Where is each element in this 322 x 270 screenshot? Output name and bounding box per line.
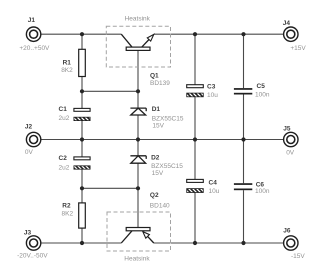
svg-text:BZX55C15: BZX55C15 <box>151 163 183 170</box>
wire top rail to C3 <box>194 34 196 84</box>
svg-text:15V: 15V <box>152 170 164 177</box>
wire node to C1 <box>81 91 83 108</box>
wire Q2 base <box>137 188 139 227</box>
svg-text:-15V: -15V <box>291 253 305 260</box>
svg-text:D1: D1 <box>152 106 161 113</box>
wire Q1 base <box>137 50 139 91</box>
svg-text:+15V: +15V <box>290 45 306 52</box>
label D1 value BZX55C15 15V <box>152 116 184 130</box>
svg-text:8K2: 8K2 <box>62 211 74 218</box>
svg-text:-20V..-50V: -20V..-50V <box>17 253 48 260</box>
wire C2 to node <box>81 169 83 188</box>
svg-text:C4: C4 <box>209 180 218 187</box>
capacitor C3 <box>187 84 216 97</box>
connector J1 <box>26 17 40 41</box>
wire R1 to node <box>81 77 83 92</box>
heatsink box bottom <box>107 212 171 262</box>
svg-text:J1: J1 <box>28 17 36 24</box>
wire Q1 emitter to J4 <box>154 33 284 35</box>
svg-text:J3: J3 <box>24 230 32 237</box>
svg-text:100n: 100n <box>255 92 270 99</box>
label D2 value BZX55C15 15V <box>151 163 183 177</box>
wire C5 to 0V rail <box>243 95 245 140</box>
wire R1 bottom to Q1 base node <box>82 90 138 92</box>
svg-text:Heatsink: Heatsink <box>124 255 150 262</box>
junction bottom rail C6 <box>241 241 245 245</box>
svg-text:R1: R1 <box>63 59 72 66</box>
wire 0V rail to C6 <box>243 140 245 184</box>
wire 0V rail to D2 cathode <box>137 140 139 156</box>
svg-text:J6: J6 <box>283 227 291 234</box>
wire top rail to C5 <box>243 34 245 88</box>
svg-text:0V: 0V <box>25 149 34 156</box>
svg-text:10u: 10u <box>207 92 218 99</box>
wire 0V rail to C4 <box>194 140 196 180</box>
wire C6 to bottom rail <box>243 190 245 243</box>
capacitor C1 <box>59 106 91 121</box>
connector J5 <box>283 126 298 147</box>
capacitor C2 <box>59 155 91 169</box>
wire C3 to 0V rail <box>194 97 196 140</box>
zener diode D1 <box>130 106 160 115</box>
junction C2 R2 node <box>80 186 84 190</box>
svg-text:D2: D2 <box>151 155 160 162</box>
svg-text:J2: J2 <box>25 123 33 130</box>
svg-text:2u2: 2u2 <box>59 164 70 171</box>
heatsink box top <box>106 15 170 67</box>
wire J3 to Q2 collector <box>41 242 122 244</box>
svg-text:BD140: BD140 <box>150 202 170 209</box>
svg-text:+20..+50V: +20..+50V <box>19 45 50 52</box>
svg-text:C2: C2 <box>59 155 68 162</box>
junction Q1 base D1 node <box>136 89 140 93</box>
svg-text:15V: 15V <box>152 123 164 130</box>
capacitor C6 <box>234 182 264 191</box>
svg-text:100n: 100n <box>255 188 270 195</box>
svg-text:Heatsink: Heatsink <box>125 15 151 22</box>
svg-text:R2: R2 <box>62 203 71 210</box>
resistor R1 <box>63 49 86 76</box>
wire R2 to bottom rail <box>81 228 83 243</box>
svg-text:0V: 0V <box>286 150 295 157</box>
wire node to R2 <box>81 188 83 203</box>
transistor Q1 <box>121 34 159 79</box>
wire J1 to Q1 collector <box>41 33 122 35</box>
zener diode D2 <box>130 155 159 164</box>
junction 0V rail C3 C4 <box>193 137 197 141</box>
svg-text:10u: 10u <box>209 188 220 195</box>
junction 0V rail C1 C2 <box>80 137 84 141</box>
junction bottom rail C4 <box>193 241 197 245</box>
wire 0V rail J2 to J5 <box>41 139 284 141</box>
svg-text:C5: C5 <box>257 83 266 90</box>
junction top rail C3 <box>193 32 197 36</box>
resistor R2 <box>62 203 85 228</box>
svg-text:BD139: BD139 <box>150 80 170 87</box>
wire R2 top to Q2 base node <box>82 187 138 189</box>
wire D1 anode to 0V rail <box>137 115 139 140</box>
connector J4 <box>283 20 298 41</box>
svg-text:8K2: 8K2 <box>61 67 73 74</box>
svg-text:J5: J5 <box>283 126 291 133</box>
svg-text:C3: C3 <box>207 84 216 91</box>
wire 0V rail to C2 <box>81 140 83 157</box>
junction D2 Q2 base node <box>136 186 140 190</box>
wire top rail to R1 <box>81 34 83 49</box>
wire Q2 emitter to J6 <box>154 242 284 244</box>
wire node to D1 cathode <box>137 91 139 108</box>
svg-text:Q1: Q1 <box>150 73 159 80</box>
junction bottom rail R2 <box>80 241 84 245</box>
svg-text:Q2: Q2 <box>150 192 159 199</box>
svg-text:J4: J4 <box>283 20 291 27</box>
junction R1 C1 node <box>80 89 84 93</box>
svg-text:2u2: 2u2 <box>59 115 70 122</box>
transistor Q2 <box>121 192 159 243</box>
junction 0V rail D1 D2 <box>136 137 140 141</box>
junction top rail C5 <box>241 32 245 36</box>
connector J6 <box>283 227 298 250</box>
connector J2 <box>25 123 41 146</box>
wire D2 anode to node <box>137 163 139 188</box>
wire C4 to bottom rail <box>194 193 196 244</box>
connector J3 <box>24 230 41 251</box>
capacitor C5 <box>234 83 265 95</box>
junction top rail R1 <box>80 32 84 36</box>
wire C1 to 0V rail <box>81 121 83 140</box>
svg-text:C1: C1 <box>59 106 68 113</box>
svg-text:BZX55C15: BZX55C15 <box>152 116 184 123</box>
junction 0V rail C5 C6 <box>241 137 245 141</box>
capacitor C4 <box>187 179 217 192</box>
